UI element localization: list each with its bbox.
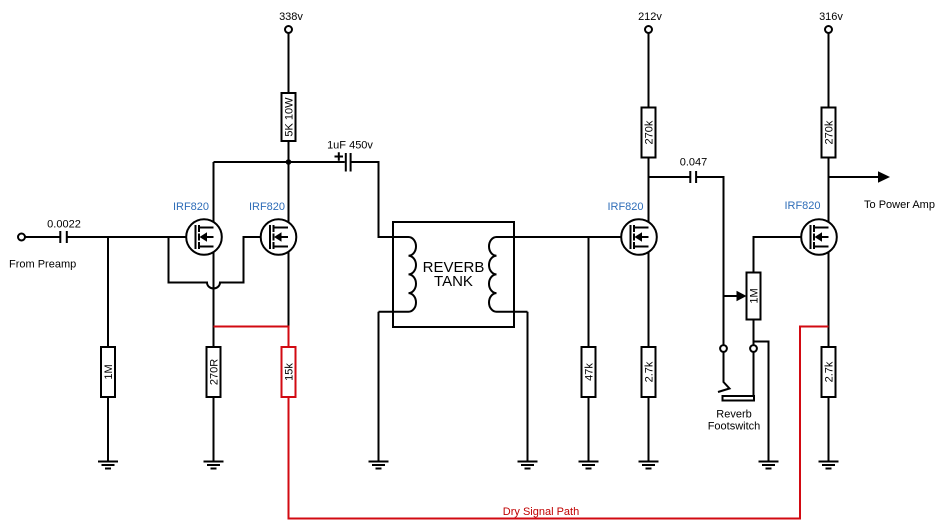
mosfet Q3 IRF820 [621, 219, 657, 255]
wire dry signal red bottom run [289, 327, 829, 519]
resistor 2.7k right [822, 347, 836, 397]
wire Q3 drain-source vertical [648, 158, 650, 348]
wire Q1 drain-source vertical [213, 162, 215, 347]
mosfet Q4 IRF820 [801, 219, 837, 255]
wire 2.7k to ground [648, 397, 650, 462]
svg-text:47k: 47k [584, 363, 596, 381]
mosfet Q1 IRF820 [186, 219, 222, 255]
resistor 2.7k left [642, 347, 656, 397]
svg-text:1M: 1M [749, 288, 761, 303]
footswitch bar [723, 396, 755, 401]
wire input to cap [25, 236, 60, 238]
arrow to power amp [878, 171, 890, 182]
wire dry signal red from Q1 source [214, 327, 289, 348]
ground footswitch [759, 462, 779, 469]
svg-text:2.7k: 2.7k [824, 361, 836, 382]
svg-text:270k: 270k [824, 120, 836, 144]
svg-text:TANK: TANK [434, 273, 473, 290]
wire right contact to bar [753, 352, 755, 396]
wire 338v rail down [288, 33, 290, 93]
ground tank input [369, 462, 389, 469]
footswitch lever [718, 352, 730, 392]
inductor tank input coil [379, 237, 417, 312]
svg-text:From Preamp: From Preamp [9, 259, 76, 271]
wire Q2 drain-source vertical [288, 162, 290, 327]
wire Q3 drain to 0.047 [649, 176, 691, 178]
wire tank output coil to ground [527, 312, 529, 462]
ground 2.7k right [819, 462, 839, 469]
wire 47k to ground [588, 397, 590, 462]
inductor tank output coil [489, 237, 528, 312]
svg-text:IRF820: IRF820 [173, 201, 209, 213]
terminal 212v [645, 26, 652, 33]
resistor 5K 10W [282, 93, 296, 141]
svg-text:0.047: 0.047 [680, 157, 708, 169]
wire 1M branch [107, 237, 109, 347]
svg-text:IRF820: IRF820 [784, 200, 820, 212]
wire Q2 gate U-path with hop [169, 237, 271, 288]
resistor 270k left [642, 108, 656, 158]
wire 0.047 to footswitch [696, 177, 723, 345]
ground tank output [518, 462, 538, 469]
wire 1M to ground [107, 397, 109, 462]
capacitor 0.047 plates [690, 171, 696, 183]
svg-text:316v: 316v [819, 11, 843, 23]
svg-text:270k: 270k [644, 120, 656, 144]
svg-text:5K 10W: 5K 10W [284, 97, 296, 137]
wire 2.7k right to ground [828, 397, 830, 462]
svg-text:15k: 15k [284, 363, 296, 381]
svg-text:IRF820: IRF820 [249, 201, 285, 213]
wire Q4 gate from pot top [754, 237, 811, 273]
svg-text:270R: 270R [209, 359, 221, 385]
wire to power amp [829, 176, 879, 178]
svg-text:0.0022: 0.0022 [47, 219, 81, 231]
svg-text:To Power Amp: To Power Amp [864, 199, 935, 211]
wire tank input coil to ground [378, 312, 380, 462]
potentiometer 1M [747, 273, 761, 320]
capacitor 0.0022 plates [60, 231, 67, 243]
potentiometer wiper arrowhead [737, 291, 747, 301]
resistor 47k [582, 347, 596, 397]
svg-text:Footswitch: Footswitch [708, 421, 761, 433]
wire 270R to ground [213, 397, 215, 462]
wire pot bottom to contact [753, 320, 755, 346]
resistor 270R [207, 347, 221, 397]
wire node to 1uF cap [289, 161, 345, 163]
svg-text:1uF 450v: 1uF 450v [327, 140, 373, 152]
mosfet Q2 IRF820 [261, 219, 297, 255]
potentiometer wiper arrow wire [724, 295, 738, 297]
wire node to Q1 drain [214, 161, 289, 163]
reverb tank box [393, 222, 514, 327]
svg-text:212v: 212v [638, 11, 662, 23]
resistor 15k red [282, 347, 296, 397]
svg-text:Reverb: Reverb [716, 409, 751, 421]
ground 1M [98, 462, 118, 469]
capacitor 1uF 450v plates [346, 153, 351, 172]
svg-text:IRF820: IRF820 [607, 201, 643, 213]
wire resistor to node [288, 141, 290, 162]
terminal input [18, 234, 25, 241]
resistor 1M input [101, 347, 115, 397]
wire 47k branch [588, 237, 590, 347]
wire Q4 drain-source vertical [828, 158, 830, 348]
resistor 270k right [822, 108, 836, 158]
footswitch left contact [720, 345, 727, 352]
svg-text:Dry Signal Path: Dry Signal Path [503, 506, 579, 518]
wire pot bottom to ground branch [754, 342, 769, 462]
node junction dot [286, 159, 292, 165]
ground 47k [579, 462, 599, 469]
ground 270R [204, 462, 224, 469]
svg-text:1M: 1M [103, 364, 115, 379]
footswitch right contact [750, 345, 757, 352]
svg-text:2.7k: 2.7k [644, 361, 656, 382]
ground 2.7k left [639, 462, 659, 469]
svg-text:338v: 338v [279, 11, 303, 23]
wire tank output to Q3 gate [497, 236, 631, 238]
terminal 316v [825, 26, 832, 33]
wire cap to Q1 gate [67, 236, 196, 238]
capacitor 1uF plus sign [335, 152, 344, 160]
wire 212v rail down [648, 33, 650, 108]
terminal 338v [285, 26, 292, 33]
wire 316v rail down [828, 33, 830, 108]
wire cap to tank input [351, 162, 409, 237]
